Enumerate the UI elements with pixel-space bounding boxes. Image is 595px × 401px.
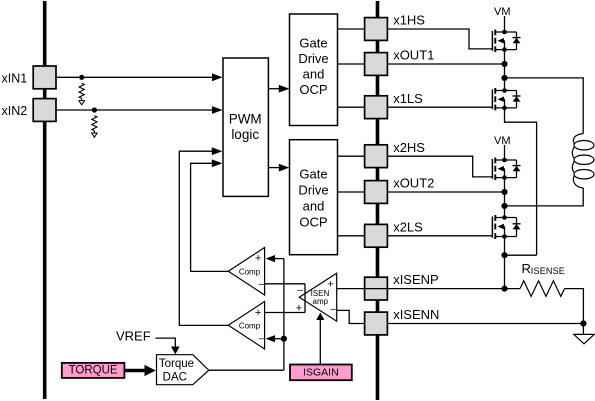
node xIN2 pulldown tap (92, 107, 97, 112)
wire Gate Drive 2 to pin x2HS (338, 155, 365, 157)
node xOUT1 A (501, 61, 507, 67)
svg-text:VREF: VREF (116, 329, 151, 344)
comparator Comp1 (228, 248, 265, 296)
svg-text:Gate: Gate (299, 36, 327, 51)
node xOUT1 B (501, 75, 507, 81)
comparator Comp2 (228, 302, 265, 350)
block Torque DAC U5 (157, 355, 209, 385)
label ISEN amp output to Comp2 (+) (296, 303, 302, 315)
transistor Q1 (x1HS high-side NMOS) (492, 30, 520, 53)
wire pin xOUT1 to half-bridge 1 (388, 63, 505, 65)
pin x2LS (365, 224, 388, 247)
label VREF (116, 329, 151, 344)
wire ISGAIN to ISEN amp (316, 313, 324, 365)
svg-text:logic: logic (231, 127, 259, 142)
label pin xOUT2 (393, 176, 434, 191)
svg-text:xISENP: xISENP (393, 272, 439, 287)
ground (sense return) (574, 324, 594, 344)
wire VREF into Torque DAC (156, 338, 180, 354)
svg-text:amp: amp (313, 297, 329, 306)
svg-text:–: – (330, 304, 336, 315)
svg-text:–: – (259, 279, 265, 290)
svg-text:Torque: Torque (159, 358, 194, 370)
label pin x2LS (393, 219, 423, 234)
label pin x1LS (393, 91, 423, 106)
resistor xIN1 pulldown (79, 83, 84, 100)
wire Gate Drive 1 to pin xOUT1 (338, 63, 365, 65)
pin xOUT2 (365, 181, 388, 204)
svg-text:xOUT2: xOUT2 (393, 176, 434, 191)
ground (xIN1 pulldown) (79, 101, 85, 105)
wire Gate Drive 1 to pin x1HS (338, 28, 365, 30)
wire Gate Drive 1 to pin x1LS (338, 106, 365, 108)
label pin xISENN (393, 307, 439, 322)
wire reference to Comp2 - input (266, 335, 284, 342)
wire pin x1LS to Q2 gate (388, 106, 493, 108)
label pin x2HS (393, 140, 425, 155)
pin x1LS (365, 96, 388, 119)
wire ISEN amp - input jog to pin xISENN (337, 310, 365, 323)
ground (xIN2 pulldown) (92, 133, 98, 137)
wire Q1 source to Q2 drain (504, 50, 506, 91)
op-amp ISEN amp U4 (299, 273, 336, 321)
pin x2HS (365, 145, 388, 168)
wire xOUT1 to load inductor (505, 78, 584, 134)
wire Q2 source to sense node (505, 108, 537, 255)
svg-text:ISENSE: ISENSE (531, 266, 565, 276)
svg-text:DAC: DAC (163, 372, 187, 384)
wire Q4 source down to sense junction (504, 237, 506, 289)
svg-text:Drive: Drive (298, 51, 328, 66)
wire xIN2 to PWM logic (56, 106, 223, 114)
input ISGAIN register (290, 365, 352, 381)
node xISENN ground junction (580, 320, 586, 326)
svg-text:R: R (522, 261, 531, 276)
svg-text:x1HS: x1HS (393, 13, 425, 28)
resistor xIN2 pulldown (92, 116, 97, 133)
wire reference to Comp1 + input (266, 255, 284, 262)
svg-text:+: + (255, 307, 261, 319)
wire Risense to ground node (565, 289, 584, 324)
transistor Q3 (x2HS high-side NMOS) (492, 158, 520, 181)
label pin xISENP (393, 272, 439, 287)
node low-side sources join (501, 252, 507, 258)
transistor Q2 (x1LS low-side NMOS) (492, 88, 520, 110)
svg-text:xISENN: xISENN (393, 307, 439, 322)
left input pin bus (wire) (43, 1, 47, 399)
svg-text:–: – (259, 334, 265, 345)
wire Q3 source to Q4 drain (504, 178, 506, 218)
block PWM logic U1 (223, 58, 268, 196)
label ISEN amp output to Comp1 (-) (297, 285, 303, 296)
pin x1HS (365, 18, 388, 41)
svg-text:and: and (303, 67, 325, 82)
wire pin x1HS to Q1 gate (388, 29, 493, 49)
wire ISEN amp output to Comp2 + input (265, 312, 305, 314)
svg-text:Comp: Comp (239, 322, 261, 331)
node reference branch (281, 336, 287, 342)
svg-text:+: + (255, 252, 261, 264)
svg-text:OCP: OCP (299, 215, 327, 230)
pin xIN2 (2, 99, 57, 122)
svg-text:PWM: PWM (229, 111, 262, 126)
svg-text:Drive: Drive (298, 183, 328, 198)
wire Gate Drive 2 to pin x2LS (338, 235, 365, 237)
pin xIN1 (2, 66, 57, 89)
svg-text:xOUT1: xOUT1 (393, 48, 434, 63)
wire ISEN amp output to Comp1 - input (265, 283, 305, 285)
svg-text:ISGAIN: ISGAIN (303, 367, 339, 379)
wire TORQUE to Torque DAC (bus arrow) (124, 365, 155, 376)
svg-text:TORQUE: TORQUE (69, 365, 118, 377)
supply VM (bridge 1) (494, 6, 511, 32)
block Gate Drive and OCP U3 (290, 140, 338, 255)
wire Gate Drive 2 to pin xOUT2 (338, 191, 365, 193)
transistor Q4 (x2LS low-side NMOS) (492, 215, 520, 239)
node xISENP junction (501, 286, 507, 292)
wire pin x2LS to Q4 gate (388, 235, 493, 237)
inductor L1 (motor winding) (572, 134, 594, 188)
wire inductor to xOUT2 node (505, 188, 584, 206)
wire Torque DAC reference riser (283, 259, 285, 371)
pin xISENN (365, 312, 388, 335)
svg-text:VM: VM (494, 6, 511, 18)
wire pin xOUT2 to half-bridge 2 (388, 191, 505, 193)
svg-text:Comp: Comp (239, 268, 261, 277)
wire pin xISENN to ground node (388, 323, 584, 325)
wire PWM logic to Gate Drive 2 (268, 164, 289, 172)
block Gate Drive and OCP U2 (290, 14, 338, 126)
label pin xOUT1 (393, 48, 434, 63)
svg-text:–: – (297, 285, 303, 296)
wire Comp1 output to PWM logic (191, 159, 229, 271)
node xOUT2 A (501, 189, 507, 195)
svg-text:x2HS: x2HS (393, 140, 425, 155)
input TORQUE register (62, 363, 125, 378)
svg-text:and: and (303, 199, 325, 214)
svg-text:xIN1: xIN1 (2, 71, 28, 85)
wire Comp2 output to PWM logic (179, 147, 228, 325)
svg-text:+: + (327, 279, 333, 291)
svg-text:x1LS: x1LS (393, 91, 423, 106)
wire pin x2HS to Q3 gate (388, 156, 493, 177)
pin xOUT1 (365, 53, 388, 76)
resistor R_ISENSE (520, 261, 565, 296)
wire ISEN amp + input / pin xISENP to Risense (337, 288, 520, 290)
svg-text:VM: VM (494, 135, 511, 147)
node xOUT2 B (501, 203, 507, 209)
svg-text:xIN2: xIN2 (2, 104, 28, 118)
supply VM (bridge 2) (494, 135, 511, 160)
right output pin bus (wire) (376, 1, 380, 400)
wire Torque DAC output (209, 369, 284, 371)
svg-text:x2LS: x2LS (393, 219, 423, 234)
svg-text:OCP: OCP (299, 82, 327, 97)
wire xIN1 to PWM logic (56, 73, 223, 81)
label pin x1HS (393, 13, 425, 28)
pin xISENP (365, 277, 388, 300)
wire PWM logic to Gate Drive 1 (268, 85, 289, 93)
node xIN1 pulldown tap (79, 75, 84, 80)
wire ISEN amp output branch vertical (304, 284, 306, 313)
svg-text:Gate: Gate (299, 167, 327, 182)
wire sense junction to Q2 source branch (505, 254, 537, 256)
